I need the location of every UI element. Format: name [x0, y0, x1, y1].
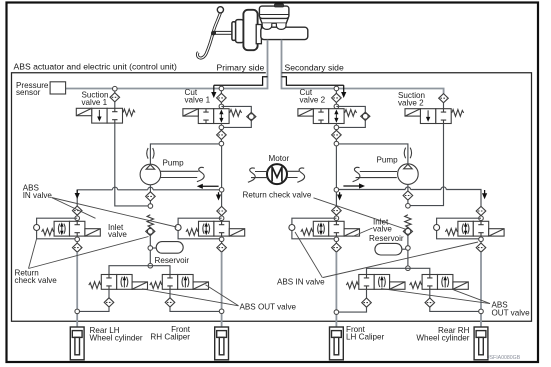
outlet valve 2 (ABS OUT)	[150, 275, 209, 290]
pointer ABS IN left to inlet valve 2 ball	[52, 198, 177, 228]
wire	[429, 289, 431, 298]
node cut valve 2 bottom	[334, 125, 339, 130]
reservoir cap	[275, 4, 284, 7]
wire	[220, 91, 222, 94]
pointer ABS OUT right to outlet valve 3	[381, 289, 490, 304]
wire	[366, 289, 368, 298]
master cylinder float ports	[262, 23, 286, 29]
wire	[480, 242, 482, 244]
node cut valve 2 top	[334, 104, 339, 109]
cut valve 2	[298, 109, 357, 124]
svg-text:Motor: Motor	[269, 154, 290, 163]
flow arrow into inlet valve 3	[337, 192, 342, 200]
svg-text:RH Caliper: RH Caliper	[150, 333, 190, 342]
filter suction valve 2 inlet	[439, 94, 449, 103]
wire cut valve 1 bypass	[221, 106, 251, 127]
return check valve 2	[405, 215, 411, 228]
suction valve 2	[405, 109, 464, 124]
wire	[480, 215, 482, 217]
svg-text:check valve: check valve	[15, 276, 58, 285]
svg-text:valve 2: valve 2	[300, 95, 326, 104]
node reservoir 1 bottom	[148, 263, 153, 268]
svg-text:Reservoir: Reservoir	[369, 234, 404, 243]
wire	[407, 200, 409, 203]
pointer ABS OUT right to outlet valve 4	[454, 290, 491, 304]
wire secondary flow branch	[282, 77, 344, 86]
wire primary flow branch	[214, 77, 268, 86]
filter inlet valve 3 inlet	[332, 206, 342, 215]
inlet valve 2 (ABS IN)	[186, 221, 245, 236]
wire	[335, 236, 337, 237]
node inlet valve 1 bottom	[75, 237, 80, 242]
rear LH wheel cylinder	[70, 327, 84, 360]
node pump 2 suction junction	[406, 204, 411, 209]
pointer ABS IN right to inlet valve 4	[323, 242, 478, 278]
wire	[114, 102, 116, 108]
booster push rod	[216, 31, 233, 34]
svg-text:valve 2: valve 2	[398, 99, 424, 108]
filter inlet valve 3 outlet	[332, 243, 342, 252]
flow arrow to inlet valves primary	[197, 184, 219, 189]
wire	[335, 219, 337, 222]
svg-text:valve 1: valve 1	[82, 98, 108, 107]
inlet valve 3 (ABS IN)	[301, 221, 360, 236]
wire trunk to rear LH wheel cylinder	[76, 252, 78, 327]
outlet valve 1 (ABS OUT)	[89, 275, 148, 290]
brake booster	[232, 10, 258, 50]
flow arrow into inlet valve 2	[216, 192, 221, 200]
filter pump 2 suction	[403, 191, 413, 200]
filter suction valve 1 inlet	[110, 93, 120, 102]
wire	[335, 103, 337, 105]
filter cut valve 1 outlet	[217, 130, 227, 139]
node front RH drain junction	[219, 309, 224, 314]
pump 2	[398, 148, 419, 185]
pointer ABS OUT left to outlet valve 1	[142, 289, 239, 306]
wire	[335, 214, 337, 217]
svg-text:Reservoir: Reservoir	[155, 256, 190, 265]
wire	[220, 140, 222, 142]
node pump 1 suction junction	[148, 204, 153, 209]
wire	[335, 242, 337, 244]
check valve cut valve 1 bypass	[247, 112, 256, 120]
wire	[335, 124, 337, 126]
wire outlet valve 2 drain	[170, 307, 220, 311]
reservoir 1	[153, 247, 157, 249]
wire primary pressure rail	[77, 146, 221, 207]
motor M1	[267, 164, 287, 184]
wire trunk to front RH caliper	[221, 252, 223, 327]
check ball inlet valve 2	[175, 225, 181, 231]
node cut valve 1 top	[219, 104, 224, 109]
node rear RH drain junction	[479, 309, 484, 314]
master cylinder reservoir tank	[259, 6, 289, 23]
front LH caliper	[330, 327, 344, 360]
wire hop over suction line	[112, 187, 117, 190]
filter cut valve 2 outlet	[332, 130, 342, 139]
check ball inlet valve 4	[434, 225, 440, 231]
inlet valve 1 (ABS IN)	[42, 221, 101, 236]
node rear LH drain junction	[75, 309, 80, 314]
node cut valve 1 bottom	[219, 125, 224, 130]
wire pump 1 suction stub	[149, 185, 151, 192]
node inlet valve 2 top	[219, 216, 224, 221]
wire	[443, 103, 445, 109]
wire outlet valve 1 drain	[80, 307, 110, 311]
svg-text:IN valve: IN valve	[23, 191, 53, 200]
wire hop over pump 2 suction	[405, 187, 410, 190]
svg-text:valve: valve	[373, 225, 392, 234]
node reservoir 2 bottom	[406, 266, 411, 271]
wire trunk to front LH caliper	[335, 252, 337, 327]
wire	[407, 250, 409, 266]
filter inlet valve 4 inlet	[476, 206, 486, 215]
wire suction valve 2 to pump suction	[410, 124, 444, 206]
svg-text:OUT valve: OUT valve	[492, 308, 531, 317]
svg-text:LH Caliper: LH Caliper	[346, 333, 385, 342]
flow arrow into cut valve 2	[341, 85, 346, 98]
motor drive shaft to pump 2	[287, 167, 397, 182]
filter inlet valve 2 outlet	[217, 243, 227, 252]
wire	[335, 140, 337, 142]
pointer inlet valve right	[353, 228, 373, 237]
front RH caliper	[215, 327, 229, 360]
pointer ABS OUT left to outlet valve 2	[206, 285, 239, 306]
flow arrow into cut valve 1	[211, 85, 216, 98]
node pump 1 outlet junction	[219, 141, 224, 146]
node cut valve 1 feed	[219, 86, 224, 91]
node inlet valve 3 top	[334, 216, 339, 221]
wire hop over suction line 2	[441, 187, 446, 190]
wire	[149, 201, 151, 204]
node inlet valve 3 bottom	[334, 237, 339, 242]
wire	[76, 236, 78, 237]
filter pump 1 suction	[146, 192, 156, 201]
node inlet valve 4 bottom	[479, 237, 484, 242]
wire cut valve 2 bypass	[336, 106, 365, 127]
node suction valve 1 feed	[113, 86, 118, 91]
wire inlet valve 2 bypass	[178, 218, 222, 239]
wire suction valve 1 to pump suction	[115, 123, 148, 206]
wire	[480, 219, 482, 222]
wire hop over pump 1 suction	[148, 187, 153, 190]
svg-text:ABS actuator and electric unit: ABS actuator and electric unit (control …	[14, 62, 177, 72]
filter cut valve 2 inlet	[332, 93, 342, 102]
filter outlet valve 1 drain	[104, 298, 114, 307]
outlet valve 4 (ABS OUT)	[410, 275, 469, 290]
wire inlet valve 3 bypass	[292, 218, 337, 239]
filter inlet valve 1 outlet	[72, 243, 82, 252]
pointer return label to inlet valve 1 bypass	[29, 239, 37, 269]
brake pedal	[197, 7, 223, 58]
wire pump 2 suction stub	[407, 184, 409, 191]
svg-text:sensor: sensor	[16, 88, 41, 97]
wire	[220, 124, 222, 126]
wire	[221, 219, 223, 222]
wire	[169, 289, 171, 298]
wire secondary side pipe from master cylinder	[282, 40, 444, 94]
filter inlet valve 4 outlet	[476, 243, 486, 252]
filter inlet valve 1 inlet	[72, 206, 82, 215]
node inlet valve 2 bottom	[219, 237, 224, 242]
svg-text:Wheel cylinder: Wheel cylinder	[416, 333, 469, 342]
rear RH wheel cylinder	[474, 327, 488, 360]
pointer return label to check valve 1	[29, 237, 149, 269]
check ball inlet valve 1	[34, 225, 40, 231]
svg-text:Primary side: Primary side	[217, 63, 265, 73]
wire outlet valves 3-4 top rail	[367, 268, 430, 274]
wire	[335, 91, 337, 94]
wire outlet valve 4 drain	[430, 307, 479, 311]
wire	[220, 103, 222, 105]
svg-text:Return check valve: Return check valve	[243, 190, 312, 199]
svg-text:ABS OUT valve: ABS OUT valve	[240, 303, 297, 312]
svg-text:valve: valve	[108, 230, 127, 239]
node secondary rail junction	[334, 188, 339, 193]
wire	[220, 129, 222, 132]
wire	[149, 250, 151, 263]
svg-text:JSFIA0080GB: JSFIA0080GB	[487, 355, 521, 361]
node inlet valve 4 top	[479, 216, 484, 221]
wire	[108, 289, 110, 298]
check ball inlet valve 3	[289, 225, 295, 231]
wire	[221, 236, 223, 237]
wire pump 1 outlet	[150, 144, 219, 165]
outlet valve 3 (ABS OUT)	[346, 275, 405, 290]
flow arrow to inlet valves secondary	[343, 183, 365, 188]
pressure sensor	[50, 82, 66, 94]
flow arrow into inlet valve 4	[482, 190, 487, 199]
ABS actuator unit box	[12, 73, 532, 322]
node primary rail junction	[219, 188, 224, 193]
check valve cut valve 2 bypass	[361, 112, 370, 120]
wire	[221, 242, 223, 244]
reservoir 2	[402, 248, 406, 250]
node pump 2 outlet junction	[334, 141, 339, 146]
wire trunk to rear RH wheel cylinder	[480, 252, 482, 327]
wire	[114, 91, 116, 93]
filter outlet valve 3 drain	[362, 298, 372, 307]
wire pump 2 outlet	[339, 144, 408, 164]
svg-text:Secondary side: Secondary side	[285, 63, 344, 73]
pointer ABS IN left to inlet valve 1	[52, 198, 96, 219]
suction valve 1	[76, 108, 135, 123]
pump 1	[140, 148, 161, 185]
wire inlet valve 1 bypass	[37, 218, 78, 239]
master cylinder body	[256, 25, 308, 44]
wire	[76, 242, 78, 244]
cut valve 1	[183, 109, 242, 124]
wire secondary pressure rail	[336, 146, 481, 207]
flow arrow into inlet valve 1	[75, 190, 80, 199]
node front LH drain junction	[334, 310, 339, 315]
wire	[407, 236, 409, 246]
check valve return 1	[146, 227, 155, 235]
svg-text:Pump: Pump	[163, 159, 185, 168]
pointer return check valve to check valve 2	[314, 198, 409, 230]
svg-text:ABS IN valve: ABS IN valve	[277, 277, 325, 286]
svg-text:Wheel cylinder: Wheel cylinder	[90, 333, 143, 342]
node cut valve 2 feed	[334, 86, 339, 91]
wire outlet valves 1-2 top rail	[109, 266, 170, 275]
wire	[76, 214, 78, 217]
filter outlet valve 2 drain	[165, 298, 175, 307]
node inlet valve 1 top	[75, 216, 80, 221]
pointer ABS IN right to inlet valve 3 ball	[295, 232, 323, 278]
check valve return 2	[403, 227, 412, 235]
filter inlet valve 2 inlet	[217, 206, 227, 215]
svg-text:valve 1: valve 1	[185, 95, 211, 104]
return check valve 1	[147, 215, 153, 228]
wire	[221, 215, 223, 217]
wire	[76, 219, 78, 222]
inlet valve 4 (ABS IN)	[445, 221, 504, 236]
motor drive shaft to pump 1	[160, 167, 267, 182]
node reservoir 1 top	[148, 246, 153, 251]
wire outlet valve 3 drain	[338, 307, 366, 312]
wire primary side pipe from master cylinder	[66, 40, 268, 89]
filter cut valve 1 inlet	[217, 93, 227, 102]
wire inlet valve 4 bypass	[437, 218, 481, 239]
filter outlet valve 4 drain	[425, 298, 435, 307]
wire	[335, 129, 337, 132]
wire	[149, 236, 151, 246]
svg-text:Pump: Pump	[377, 156, 399, 165]
node reservoir 2 top	[406, 246, 411, 251]
wire	[480, 236, 482, 237]
wire	[220, 108, 222, 110]
